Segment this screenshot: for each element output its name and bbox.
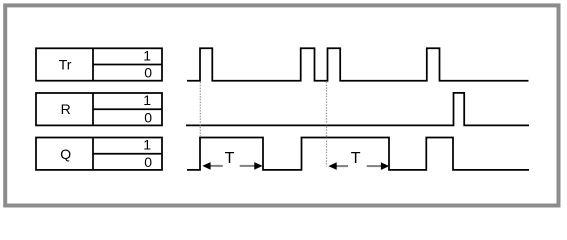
svg-text:0: 0 — [144, 109, 152, 125]
svg-text:T: T — [225, 150, 235, 167]
waveform Q (monostable output) — [187, 138, 529, 170]
svg-text:0: 0 — [144, 65, 152, 81]
dotted trigger alignment line 1 (x=200) — [199, 82, 201, 137]
waveform R (reset pulse) — [186, 93, 529, 126]
dotted trigger alignment line 2 (x=326.5) — [326, 82, 328, 167]
svg-text:Tr: Tr — [59, 56, 72, 72]
svg-text:T: T — [351, 150, 361, 167]
svg-text:Q: Q — [60, 146, 71, 162]
svg-text:0: 0 — [144, 154, 152, 170]
signal label box Tr (levels 1/0) — [36, 48, 162, 80]
signal label box R (levels 1/0) — [36, 93, 162, 125]
svg-text:1: 1 — [143, 137, 151, 153]
signal label box Q (levels 1/0) — [36, 138, 162, 170]
svg-text:1: 1 — [143, 92, 151, 108]
pulse width marker T (second) — [328, 150, 389, 170]
svg-text:1: 1 — [143, 47, 151, 63]
svg-text:R: R — [61, 101, 71, 117]
pulse width marker T (first) — [202, 150, 262, 170]
waveform Tr (trigger pulses) — [187, 48, 529, 81]
